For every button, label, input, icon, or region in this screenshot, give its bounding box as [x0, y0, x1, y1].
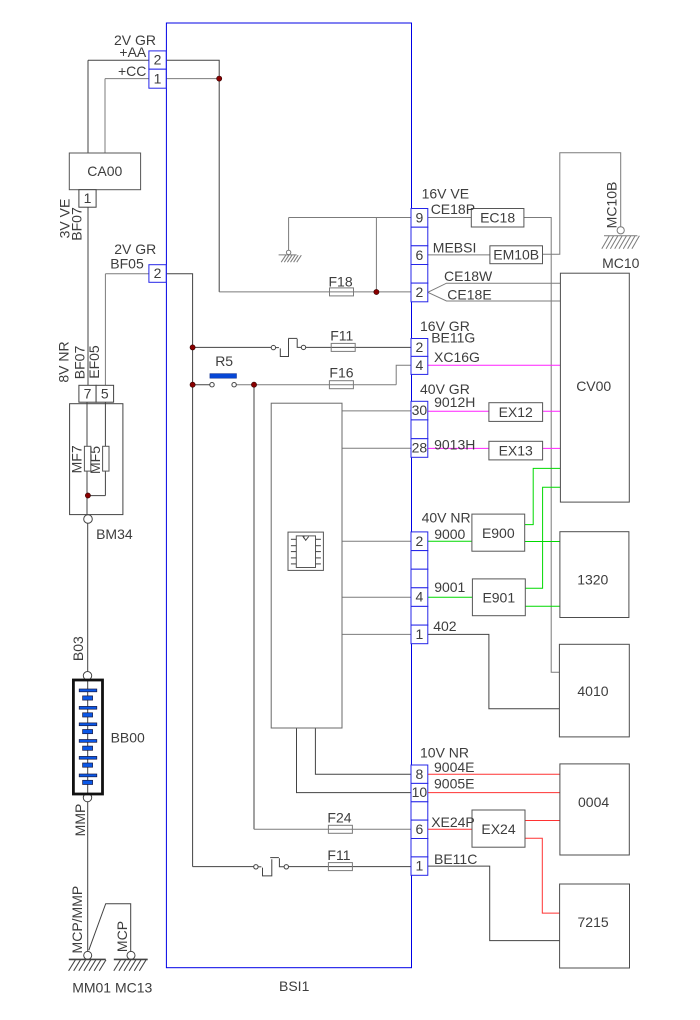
svg-text:R5: R5	[215, 353, 233, 369]
svg-text:5: 5	[101, 386, 109, 402]
svg-text:1: 1	[154, 70, 162, 86]
svg-text:MEBSI: MEBSI	[433, 240, 477, 256]
svg-text:28: 28	[412, 440, 428, 456]
svg-text:F24: F24	[327, 809, 351, 825]
svg-text:7215: 7215	[578, 914, 609, 930]
svg-text:MMP: MMP	[72, 804, 88, 837]
svg-text:BSI1: BSI1	[279, 978, 310, 994]
svg-text:2: 2	[416, 533, 424, 549]
svg-text:BE11G: BE11G	[431, 330, 475, 346]
svg-text:MC13: MC13	[115, 980, 153, 996]
svg-text:EF05: EF05	[86, 345, 102, 379]
svg-text:9000: 9000	[434, 526, 465, 542]
svg-text:4: 4	[416, 357, 424, 373]
svg-text:MC10B: MC10B	[603, 182, 619, 229]
svg-text:9: 9	[416, 209, 424, 225]
svg-text:BF07: BF07	[71, 346, 87, 380]
svg-text:1: 1	[416, 858, 424, 874]
svg-text:+AA: +AA	[119, 44, 147, 60]
svg-text:9005E: 9005E	[434, 776, 474, 792]
svg-text:F11: F11	[327, 847, 350, 863]
svg-text:EM10B: EM10B	[493, 247, 539, 263]
svg-text:CV00: CV00	[576, 378, 611, 394]
svg-text:EX13: EX13	[499, 443, 533, 459]
svg-text:1320: 1320	[577, 571, 608, 587]
svg-text:CE18W: CE18W	[444, 268, 493, 284]
svg-text:F18: F18	[329, 273, 353, 289]
svg-text:CE18E: CE18E	[447, 286, 491, 302]
svg-text:E900: E900	[482, 525, 515, 541]
svg-text:MM01: MM01	[72, 980, 111, 996]
svg-text:F16: F16	[329, 365, 353, 381]
svg-text:2: 2	[154, 265, 162, 281]
svg-text:XC16G: XC16G	[434, 349, 480, 365]
svg-text:MF7: MF7	[69, 445, 85, 473]
svg-text:+CC: +CC	[118, 63, 146, 79]
svg-text:6: 6	[416, 821, 424, 837]
svg-text:0004: 0004	[578, 794, 609, 810]
svg-text:9001: 9001	[434, 579, 465, 595]
svg-text:6: 6	[416, 247, 424, 263]
svg-text:BB00: BB00	[111, 729, 145, 745]
svg-text:2: 2	[416, 339, 424, 355]
svg-text:4: 4	[416, 589, 424, 605]
svg-text:2: 2	[416, 284, 424, 300]
svg-text:40V NR: 40V NR	[422, 510, 471, 526]
svg-text:1: 1	[416, 626, 424, 642]
svg-text:1: 1	[84, 190, 92, 206]
svg-text:BE11C: BE11C	[434, 851, 477, 867]
svg-text:10: 10	[412, 784, 428, 800]
svg-text:XE24P: XE24P	[431, 814, 475, 830]
svg-text:BM34: BM34	[96, 526, 133, 542]
svg-text:9013H: 9013H	[434, 437, 475, 453]
svg-text:CE18P: CE18P	[431, 201, 475, 217]
svg-text:EC18: EC18	[480, 210, 515, 226]
svg-text:EX12: EX12	[499, 404, 533, 420]
svg-text:9012H: 9012H	[434, 394, 475, 410]
svg-text:F11: F11	[330, 328, 353, 344]
svg-text:E901: E901	[482, 589, 515, 605]
svg-text:CA00: CA00	[87, 163, 122, 179]
svg-text:BF05: BF05	[110, 256, 144, 272]
svg-text:8V NR: 8V NR	[56, 341, 72, 382]
svg-text:MC10: MC10	[602, 255, 640, 271]
svg-text:30: 30	[412, 402, 428, 418]
svg-text:9004E: 9004E	[434, 759, 474, 775]
svg-text:B03: B03	[70, 636, 86, 661]
svg-text:8: 8	[416, 766, 424, 782]
svg-text:MCP: MCP	[114, 921, 130, 952]
svg-text:4010: 4010	[577, 683, 608, 699]
svg-text:BF07: BF07	[68, 207, 84, 241]
svg-text:402: 402	[433, 618, 457, 634]
svg-text:EX24: EX24	[481, 821, 515, 837]
svg-text:MCP/MMP: MCP/MMP	[69, 886, 85, 954]
svg-text:7: 7	[84, 386, 92, 402]
svg-text:16V VE: 16V VE	[422, 186, 469, 202]
svg-text:MF5: MF5	[87, 446, 103, 474]
svg-text:2: 2	[154, 52, 162, 68]
